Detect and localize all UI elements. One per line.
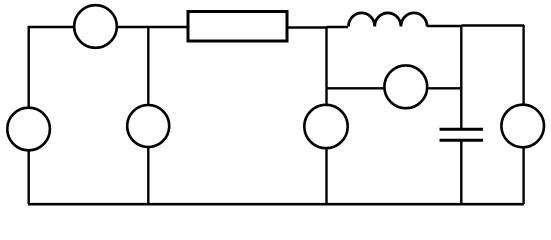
capacitor C1 top plate [440,128,484,131]
resistor R1 (rectangle) [188,12,287,42]
wire from source V5 to capacitor branch [427,87,462,89]
wire left branch upper segment [28,26,30,108]
wire from resistor to node at top of middle branch [287,26,327,28]
source V5 (circle in middle horizontal branch) [384,65,427,108]
wire capacitor branch upper segment [460,26,462,128]
source V6 (circle, far-right branch) [501,105,544,148]
wire top-left horizontal segment [28,26,74,28]
capacitor C1 bottom plate [440,139,484,142]
source V1 (circle in top wire) [74,5,117,48]
wire right branch upper segment [522,25,524,105]
wire from V1 to resistor [117,26,188,28]
source V2 (circle, far-left branch) [7,108,50,151]
inductor L1 (three bumps) [349,13,428,27]
wire from inductor to capacitor-branch node [427,25,462,27]
wire left branch lower segment [28,150,30,204]
wire second branch upper segment [147,27,149,106]
wire middle branch upper segment [325,27,327,105]
wire second branch lower segment [147,147,149,204]
node at junction of top wire and middle branch [327,26,349,28]
wire from capacitor-branch node to top-right corner [462,24,525,26]
source V3 (circle, second branch) [127,105,169,147]
wire middle branch lower segment [325,148,327,204]
wire right branch lower segment [522,147,524,204]
source V4 (circle, middle branch) [304,105,347,148]
wire from middle branch to source V5 [327,87,386,89]
wire bottom rail [28,203,524,206]
wire capacitor branch lower segment [460,141,462,204]
